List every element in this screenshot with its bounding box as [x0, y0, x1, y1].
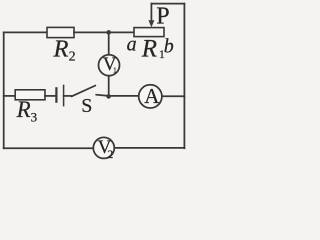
svg-text:R: R [141, 36, 157, 63]
voltmeter V1 [99, 55, 120, 76]
svg-text:A: A [144, 84, 160, 108]
junction node middle (V1 to main) [106, 94, 111, 99]
slider arrowhead P [148, 20, 154, 27]
ammeter A [139, 85, 162, 108]
wire left vertical [3, 32, 5, 148]
svg-text:2: 2 [69, 50, 76, 65]
junction node top (V1 tap) [106, 30, 111, 35]
wire top middle segment [74, 31, 134, 33]
wire ammeter to right [162, 95, 185, 97]
wire switch to ammeter [96, 95, 139, 96]
svg-text:S: S [81, 95, 92, 117]
wire slider stem [150, 4, 152, 21]
wire top left segment [4, 31, 47, 33]
svg-text:P: P [156, 4, 169, 30]
voltmeter V2 [93, 137, 114, 158]
wire V1 branch lower [108, 76, 110, 96]
wire battery to switch [64, 95, 72, 97]
wire top bump horizontal [151, 3, 184, 5]
resistor R3 [15, 90, 45, 100]
wire R3 to battery [45, 95, 55, 97]
svg-text:R: R [53, 35, 69, 62]
wire bottom right segment [114, 147, 184, 149]
svg-text:a: a [127, 34, 137, 56]
svg-text:2: 2 [107, 147, 113, 161]
svg-text:3: 3 [31, 110, 37, 125]
wire middle left segment [4, 95, 16, 97]
resistor R1 (rheostat body) [134, 28, 164, 37]
svg-text:1: 1 [113, 66, 117, 75]
resistor R2 [47, 27, 74, 37]
svg-text:R: R [16, 97, 31, 122]
switch S lever [72, 86, 96, 97]
battery short plate [55, 88, 57, 101]
battery long plate [63, 85, 65, 105]
svg-text:b: b [164, 36, 174, 58]
wire bottom left segment [4, 147, 94, 149]
wire right vertical [183, 4, 185, 149]
wire V1 branch upper [108, 32, 110, 54]
